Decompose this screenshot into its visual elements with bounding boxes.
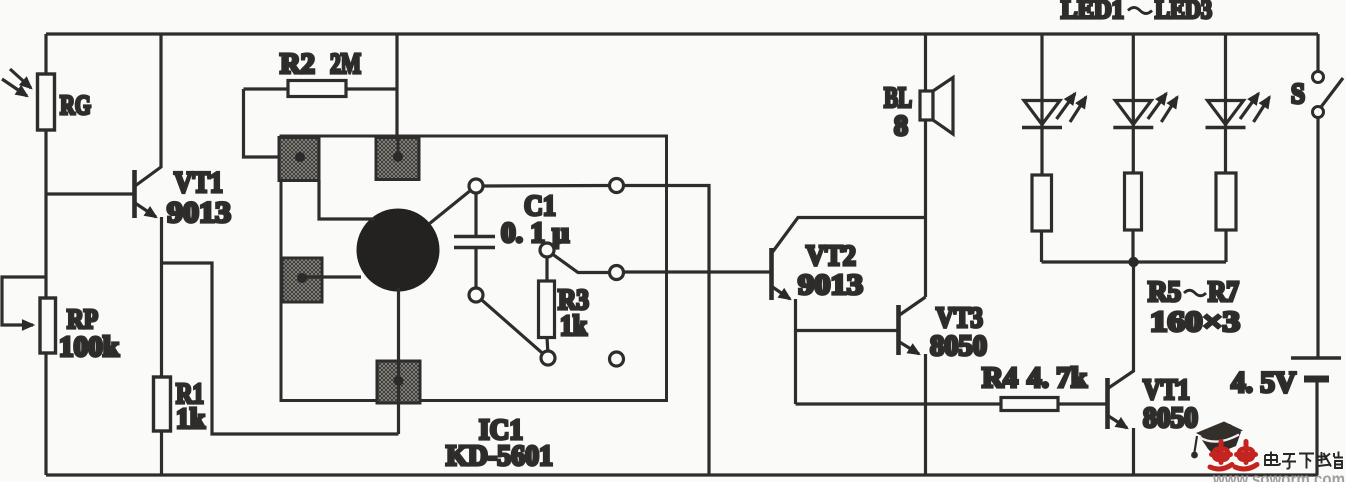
resistor RG [38, 74, 55, 130]
transistor VT2 9013 [772, 218, 926, 405]
terminal T1 [469, 179, 483, 193]
wire top rail [46, 32, 1318, 35]
wire pad3 to blob [302, 275, 361, 278]
svg-text:RG: RG [60, 90, 91, 120]
terminal J above R3 [540, 243, 554, 257]
COB blob chip [357, 209, 440, 292]
svg-text:KD-5601: KD-5601 [446, 440, 553, 472]
svg-text:4. 7k: 4. 7k [1027, 362, 1088, 394]
pad 2 [376, 138, 419, 180]
svg-text:9013: 9013 [167, 196, 231, 229]
svg-text:VT1: VT1 [174, 166, 223, 199]
svg-text:LED1: LED1 [1061, 0, 1124, 24]
svg-text:R2: R2 [280, 48, 315, 80]
junction dot pad2 [393, 152, 403, 162]
svg-text:2M: 2M [330, 48, 361, 80]
transistor VT1 8050 right [1108, 262, 1134, 475]
pad 4 [377, 361, 420, 403]
wire top rail to pad2 [395, 34, 398, 157]
resistor R7 [1216, 173, 1236, 262]
wire blob to pad4 [397, 288, 400, 434]
resistor R2 [244, 81, 398, 158]
wire T3 to T4 diagonal [481, 300, 542, 354]
svg-text:8050: 8050 [1143, 402, 1198, 434]
speaker BL [920, 34, 953, 297]
junction dot pad3 [297, 273, 307, 283]
svg-text:S: S [1291, 79, 1305, 110]
wire blob to terminal T1 [429, 190, 471, 224]
LED2 [1113, 34, 1177, 173]
watermark red worm characters [1210, 442, 1257, 470]
wire emitter to IC pad4 [162, 263, 399, 434]
svg-text:8: 8 [894, 111, 908, 142]
LED1 [1022, 34, 1086, 175]
svg-text:BL: BL [884, 83, 912, 114]
svg-text:R4: R4 [982, 362, 1018, 394]
switch S [1313, 34, 1344, 358]
wire bottom rail [46, 473, 1318, 476]
resistor R6 [1125, 173, 1142, 262]
light arrows into RG [2, 69, 31, 96]
transistor VT3 8050 [796, 297, 926, 475]
resistor R4 [796, 398, 1107, 411]
IC1 box [281, 136, 667, 401]
capacitor C1 [454, 193, 495, 288]
svg-text:VT2: VT2 [806, 240, 856, 272]
svg-text:1k: 1k [560, 311, 587, 342]
resistor R3 [539, 257, 555, 351]
svg-text:0. 1 μ: 0. 1 μ [501, 218, 569, 249]
svg-text:www.soworm.com: www.soworm.com [1212, 469, 1345, 482]
potentiometer RP [2, 277, 56, 353]
pad 3 [282, 258, 322, 302]
terminal T6 [610, 352, 624, 366]
svg-text:4. 5V: 4. 5V [1231, 366, 1296, 399]
pad 1 [279, 138, 319, 181]
svg-text:8050: 8050 [930, 330, 987, 362]
terminal T2 [610, 179, 624, 193]
LED3 [1206, 34, 1270, 173]
wire T5 to VT2 base [624, 270, 771, 273]
wire J to T5 [553, 254, 610, 272]
wire T1 to T2 to ground drop [483, 186, 709, 476]
junction node dot [1128, 257, 1138, 267]
svg-text:R5: R5 [1148, 277, 1181, 308]
svg-text:100k: 100k [59, 332, 119, 363]
svg-text:160×3: 160×3 [1150, 306, 1240, 338]
wire left rail [44, 34, 47, 475]
terminal T4 [541, 351, 555, 365]
terminal T5 [610, 266, 624, 280]
svg-text:9013: 9013 [798, 269, 863, 301]
resistor R1 [154, 377, 171, 475]
wire pad1 to blob [319, 180, 375, 219]
junction dot pad4 [394, 376, 404, 386]
watermark logo graduation cap [1191, 422, 1243, 459]
terminal T3 [469, 288, 483, 302]
watermark text dianzi xiazai zhan [1265, 452, 1343, 469]
svg-text:1k: 1k [176, 404, 205, 435]
svg-text:RP: RP [67, 304, 98, 334]
svg-text:R7: R7 [1208, 277, 1239, 308]
wire pad2 stub [396, 136, 399, 157]
transistor VT1 9013 left [46, 34, 162, 377]
wire resistor bus [1042, 260, 1227, 263]
resistor R5 [1032, 175, 1052, 262]
svg-text:LED3: LED3 [1155, 0, 1212, 24]
junction dot pad1 [295, 152, 305, 162]
battery 4.5V [1291, 358, 1341, 475]
